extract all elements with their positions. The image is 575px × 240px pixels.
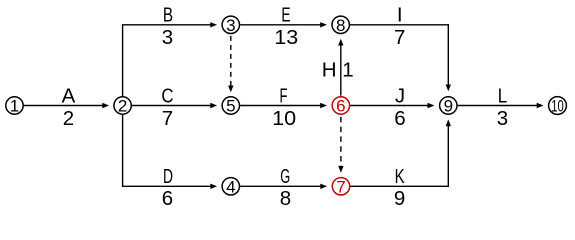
svg-text:7: 7 [162, 107, 173, 130]
svg-text:F: F [280, 84, 288, 107]
wire C (2 to 5) [132, 103, 217, 108]
wire B elbow (2 up then right to 3) [123, 22, 218, 96]
node 8 [332, 16, 349, 35]
label D/6 [162, 165, 173, 210]
svg-text:A: A [62, 84, 76, 107]
label G/8 [280, 165, 291, 210]
svg-text:8: 8 [336, 16, 345, 35]
svg-text:5: 5 [226, 97, 235, 116]
node 2 [114, 97, 131, 116]
svg-text:3: 3 [497, 107, 508, 130]
svg-text:4: 4 [226, 177, 235, 196]
svg-text:9: 9 [394, 187, 405, 210]
svg-text:2: 2 [118, 97, 127, 116]
svg-text:E: E [281, 4, 290, 27]
label L/3 [497, 84, 508, 130]
svg-text:9: 9 [444, 97, 453, 116]
label E/13 [274, 4, 298, 50]
wire F (5 to 6) [240, 103, 327, 108]
label I/7 [394, 4, 405, 50]
wire K elbow (7 right then up to 9) [350, 119, 451, 186]
node 1 [6, 97, 23, 116]
svg-text:B: B [163, 4, 173, 27]
label K/9 [394, 165, 405, 210]
label C/7 [161, 84, 173, 130]
svg-text:D: D [163, 165, 173, 188]
wire L (9 to 10) [458, 103, 544, 108]
svg-text:13: 13 [274, 26, 298, 49]
node 5 [222, 97, 239, 116]
node 10 [549, 97, 567, 116]
svg-text:J: J [395, 84, 405, 107]
svg-text:C: C [161, 84, 173, 107]
svg-text:K: K [395, 165, 405, 188]
svg-text:7: 7 [394, 26, 405, 49]
svg-text:1: 1 [10, 97, 19, 116]
label B/3 [162, 4, 173, 50]
wire A (1 to 2) [23, 103, 109, 108]
node 9 [440, 97, 457, 116]
svg-text:H: H [322, 58, 337, 81]
svg-text:10: 10 [272, 107, 296, 130]
svg-text:2: 2 [63, 107, 74, 130]
dashed dummy (6 to 7) [338, 117, 343, 173]
label A/2 [62, 84, 76, 130]
label H/1 [322, 58, 354, 81]
svg-text:10: 10 [551, 97, 564, 116]
wire G (4 to 7) [240, 184, 327, 189]
wire J (6 to 9) [350, 103, 434, 108]
node 3 [222, 16, 239, 35]
svg-text:6: 6 [162, 187, 173, 210]
svg-text:6: 6 [336, 97, 345, 116]
node 6 (red) [332, 97, 349, 116]
svg-text:L: L [498, 84, 508, 107]
svg-text:3: 3 [162, 26, 173, 49]
svg-text:8: 8 [280, 187, 291, 210]
svg-text:1: 1 [342, 58, 353, 81]
svg-text:7: 7 [336, 177, 345, 196]
svg-text:I: I [397, 4, 403, 27]
label F/10 [272, 84, 296, 130]
dashed dummy (3 to 5) [228, 36, 233, 92]
svg-text:3: 3 [226, 16, 235, 35]
label J/6 [394, 84, 405, 130]
wire H (6 up to 8) [338, 39, 343, 96]
wire I elbow (8 right then down to 9) [350, 25, 451, 92]
node 7 (red) [332, 177, 349, 196]
svg-text:6: 6 [394, 107, 405, 130]
node 4 [222, 177, 239, 196]
wire D elbow (2 down then right to 4) [123, 115, 218, 189]
svg-text:G: G [280, 165, 290, 188]
wire E (3 to 8) [240, 22, 327, 27]
